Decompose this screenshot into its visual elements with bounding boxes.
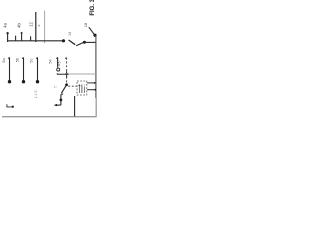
junction dot top of right rail <box>93 34 96 37</box>
wire corner to gray rail <box>57 73 68 74</box>
junction mark on rail <box>65 73 69 75</box>
label 56 tick <box>57 64 60 66</box>
svg-text:14: 14 <box>68 32 72 36</box>
svg-text:5: 5 <box>58 62 62 64</box>
wire horizontal with arrow <box>55 104 61 106</box>
wire vertical from node A to bus <box>7 33 9 42</box>
leader dashes to box <box>68 85 76 87</box>
armature dot <box>65 83 68 86</box>
right rail lower gray <box>95 98 97 117</box>
box connector upper <box>87 82 95 84</box>
svg-text:5a: 5a <box>1 58 6 63</box>
switch S2 blade upper right <box>89 27 95 35</box>
electrode line E3 with hook and dot <box>36 57 37 58</box>
electrode line E4 short <box>56 57 57 58</box>
blade flag tick <box>61 94 63 95</box>
switch S3 blade <box>61 85 66 93</box>
wire vertical <box>21 33 23 41</box>
svg-text:54: 54 <box>49 59 53 63</box>
battery arrow inside <box>79 85 81 93</box>
battery box B1 dashed <box>77 81 87 95</box>
wire stub <box>30 36 32 41</box>
junction dot <box>83 41 86 44</box>
svg-text:4b: 4b <box>17 23 22 28</box>
electrode line E2 with hook and dot <box>22 57 23 58</box>
wire gray vertical <box>44 11 46 44</box>
wire vertical below switch <box>60 94 62 105</box>
svg-text:a: a <box>37 24 41 26</box>
capacitor stub C1 top plate dot <box>6 32 8 34</box>
arrowhead <box>54 104 57 106</box>
wire stub <box>15 36 17 41</box>
relay wire vertical to ground bus <box>74 96 76 117</box>
wire horizontal to right rail <box>84 41 96 43</box>
relay dashed control line <box>65 57 66 58</box>
junction dot <box>60 99 63 102</box>
wire vertical long (input line) <box>35 12 37 42</box>
battery mark <box>83 85 85 93</box>
gray rail horizontal <box>67 73 96 75</box>
svg-text:4a: 4a <box>3 23 8 28</box>
small loop contact <box>57 68 60 71</box>
svg-text:12: 12 <box>28 22 33 27</box>
bus wire horizontal <box>7 40 63 42</box>
svg-text:1,4,5: 1,4,5 <box>34 91 38 99</box>
switch S1 blade <box>69 40 76 45</box>
svg-text:18: 18 <box>83 22 88 27</box>
box connector lower <box>87 89 96 91</box>
switch S1 contact diagonal <box>76 42 84 46</box>
battery cell bar <box>81 85 83 94</box>
ground bus bottom gray <box>2 116 97 118</box>
right rail wire vertical <box>95 35 97 98</box>
svg-text:FIG. 3: FIG. 3 <box>90 0 96 16</box>
junction dot at bus end <box>62 39 65 42</box>
pointer arrow bottom left <box>7 104 12 107</box>
electrode line E1 with hook and dot <box>8 57 9 58</box>
svg-text:5: 5 <box>53 86 57 88</box>
pointer dot <box>12 106 14 108</box>
capacitor stub C2 top dot <box>21 32 23 34</box>
svg-text:5b: 5b <box>14 57 19 62</box>
svg-text:5c: 5c <box>28 58 33 62</box>
